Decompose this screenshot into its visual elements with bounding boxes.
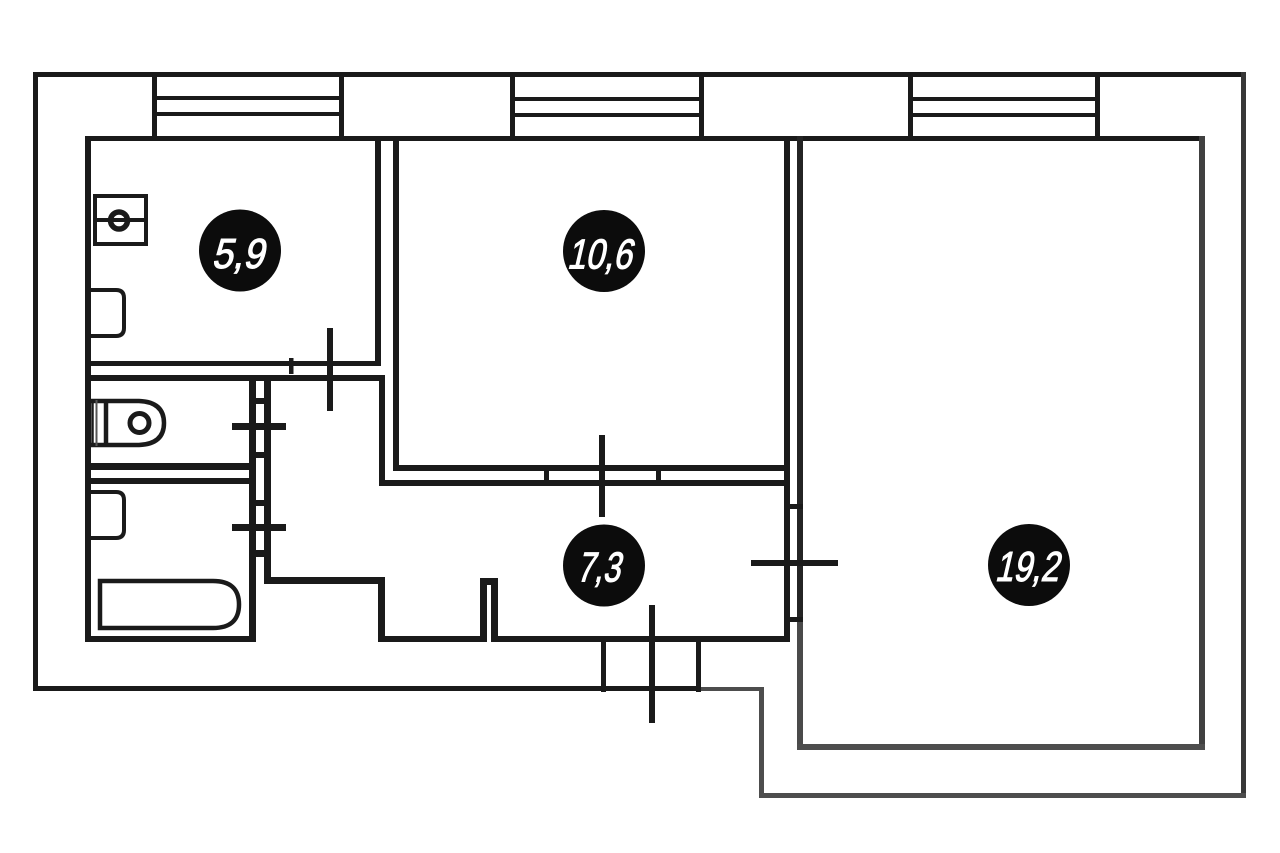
svg-text:5,9: 5,9 xyxy=(209,229,272,277)
svg-text:19,2: 19,2 xyxy=(992,544,1067,591)
svg-text:10,6: 10,6 xyxy=(564,231,639,278)
